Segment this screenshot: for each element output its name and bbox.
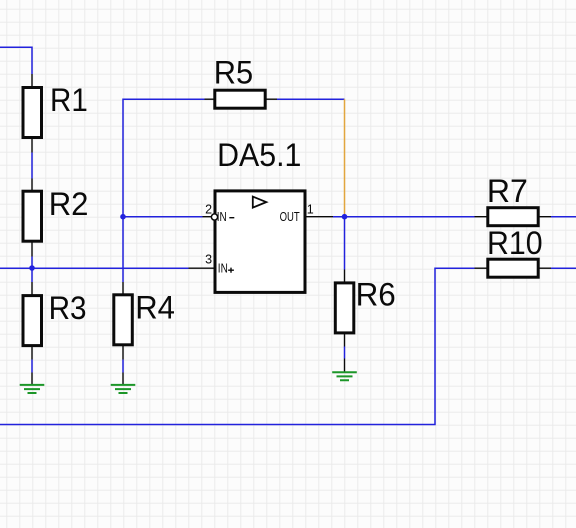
wire R10 net left with corner down (0, 268, 475, 424)
svg-text:DA5.1: DA5.1 (217, 137, 301, 173)
resistor R3 (23, 282, 87, 360)
wire R1 to R2 (31, 153, 33, 179)
svg-text:3: 3 (205, 253, 212, 267)
resistor R6 (335, 270, 396, 347)
ground under R3 (20, 373, 45, 394)
svg-text:R3: R3 (49, 290, 87, 326)
wire orange feedback vertical (344, 99, 346, 217)
resistor R2 (23, 179, 89, 257)
svg-text:1: 1 (307, 202, 314, 216)
svg-text:R2: R2 (49, 186, 89, 222)
node junction left (29, 265, 35, 271)
wire node down to R6 (344, 217, 346, 270)
svg-text:IN: IN (218, 262, 228, 276)
wire R2 to R3 through junction (31, 257, 33, 283)
svg-text:2: 2 (205, 202, 212, 216)
wire R6 to ground (344, 347, 346, 359)
resistor R5 (205, 54, 278, 108)
wire R5 right to corner (277, 98, 345, 100)
resistor R4 (114, 282, 175, 360)
resistor R1 (23, 74, 88, 153)
wire top-left input (0, 47, 32, 74)
wire R4 to ground (122, 360, 124, 373)
svg-text:IN: IN (217, 210, 227, 224)
wire OUT net (333, 216, 475, 218)
svg-text:OUT: OUT (280, 210, 300, 224)
ground under R6 (332, 359, 357, 381)
op-amp DA5.1 (189, 137, 334, 293)
svg-text:R1: R1 (50, 82, 88, 118)
resistor R10 (475, 225, 552, 277)
node junction IN- (120, 214, 126, 220)
resistor R7 (475, 173, 552, 226)
node junction OUT (342, 214, 348, 220)
ground under R4 (111, 373, 136, 394)
wire junction to IN- pin (123, 216, 203, 218)
svg-text:R5: R5 (214, 54, 253, 90)
wire R10 right to edge (551, 267, 576, 269)
wire IN- net vertical and R5 top link (123, 99, 205, 282)
svg-text:R10: R10 (487, 225, 543, 261)
wire IN+ net horizontal (0, 267, 189, 269)
wire R7 right to edge (551, 216, 576, 218)
svg-text:R7: R7 (487, 173, 528, 209)
svg-text:R4: R4 (135, 289, 175, 325)
svg-text:R6: R6 (356, 277, 396, 313)
wire R3 to ground (31, 360, 33, 373)
